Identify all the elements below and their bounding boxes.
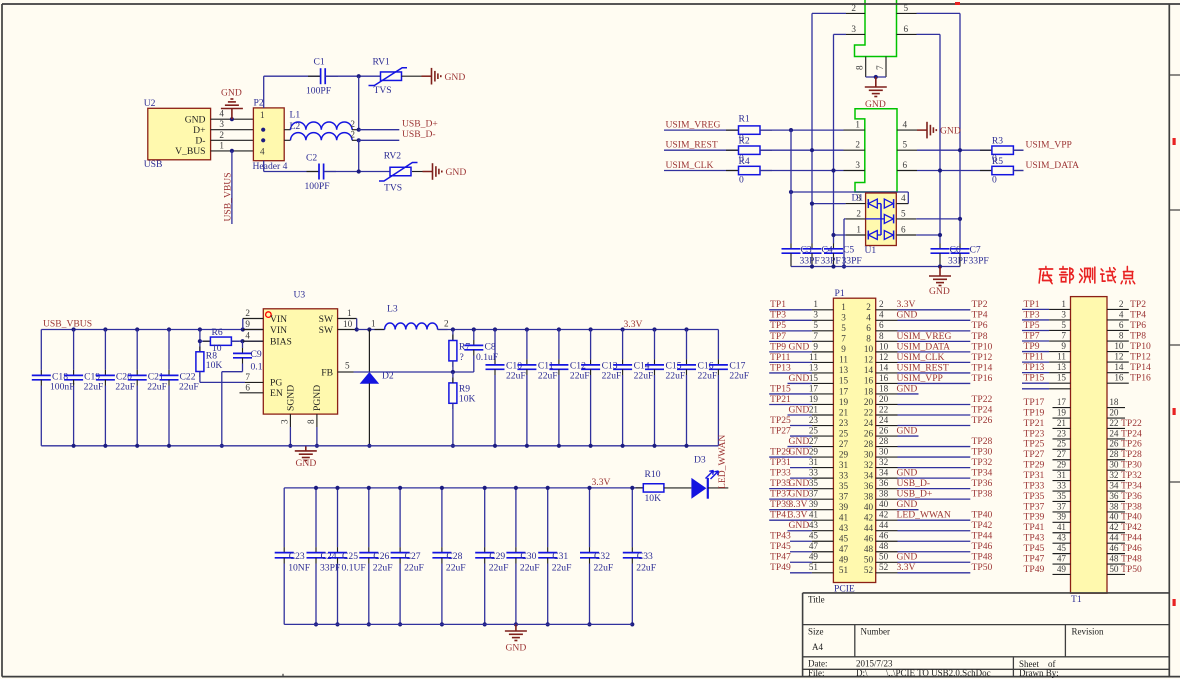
wire L3 to 3.3V rail (438, 329, 448, 331)
P1 pin 19 left row (769, 403, 812, 405)
svg-text:TP48: TP48 (1121, 553, 1142, 564)
svg-text:3.3V: 3.3V (624, 319, 643, 330)
U1 pin 5 (896, 218, 916, 220)
wire U1 pin5 to x960 (916, 218, 960, 220)
svg-text:TP45: TP45 (770, 541, 791, 552)
T1 pin 46 right row (1107, 553, 1125, 555)
svg-text:36: 36 (879, 478, 889, 488)
sheet border right (1168, 4, 1170, 677)
J2 pin 2 (844, 149, 865, 151)
svg-text:16: 16 (879, 373, 889, 383)
capacitor C17 (717, 330, 719, 360)
regulator U3 (263, 309, 337, 414)
T1 pin 35 left row (1053, 500, 1071, 502)
svg-text:27: 27 (839, 439, 849, 449)
P1 pin 23 left row (790, 425, 812, 427)
U3 pin 6 (240, 392, 264, 394)
resistor R6 (200, 340, 211, 342)
junction FB R7 (451, 370, 455, 374)
svg-text:LED_WWAN: LED_WWAN (897, 510, 951, 521)
svg-text:13: 13 (1057, 362, 1067, 372)
svg-text:1: 1 (347, 308, 352, 318)
wire J1 pin5 to USIM_VPP bus (917, 12, 961, 14)
svg-text:8: 8 (866, 334, 871, 344)
T1 pin 8 right row (1107, 340, 1129, 342)
svg-text:TP33: TP33 (770, 468, 791, 479)
svg-text:Revision: Revision (1072, 627, 1105, 637)
svg-text:USIM_VPP: USIM_VPP (897, 373, 943, 384)
wire R5 out (1013, 170, 1024, 172)
svg-text:A4: A4 (812, 642, 823, 652)
svg-text:5: 5 (903, 140, 908, 150)
capacitor C28 (441, 488, 443, 547)
svg-text:31: 31 (839, 460, 849, 470)
wire R8 bottom to PG (199, 372, 201, 383)
T1 pin 34 right row (1107, 490, 1125, 492)
svg-text:TP17: TP17 (1024, 397, 1045, 408)
title block column Number-Revision (1064, 625, 1066, 657)
svg-text:2: 2 (855, 140, 860, 150)
wire vertical USIM_CLK x=833.5 (833, 34, 835, 243)
svg-text:48: 48 (864, 544, 874, 554)
svg-text:TP4: TP4 (1130, 309, 1146, 320)
U3 pin 5 FB (338, 371, 354, 373)
svg-text:29: 29 (1057, 460, 1067, 470)
svg-text:44: 44 (864, 523, 874, 533)
lower ground rail (284, 623, 632, 625)
svg-text:22uF: 22uF (538, 371, 558, 382)
svg-text:22uF: 22uF (698, 371, 718, 382)
T1 pin 36 right row (1107, 500, 1125, 502)
svg-text:USIM_REST: USIM_REST (897, 362, 949, 373)
P1 pin 1 left row (769, 309, 812, 311)
svg-text:TP39: TP39 (1024, 512, 1045, 523)
wire U1 pin2 to ground rail (844, 218, 846, 220)
wire junction down to USB_D+ (358, 76, 360, 130)
svg-text:22uF: 22uF (729, 371, 749, 382)
svg-text:40: 40 (1109, 512, 1119, 522)
svg-text:R5: R5 (992, 156, 1003, 167)
U1 pin 4 (896, 203, 908, 205)
resistor R3 (980, 149, 992, 151)
junction x833.5 pin1 (831, 233, 835, 237)
svg-text:17: 17 (1057, 397, 1067, 407)
U1 pin 6 (896, 234, 916, 236)
svg-text:0.1: 0.1 (251, 361, 263, 372)
wire P2 bottom to C2 (263, 161, 265, 172)
resistor R9 (449, 383, 457, 403)
P1 pin 17 left row (769, 393, 812, 395)
svg-text:4: 4 (901, 193, 906, 203)
svg-text:14: 14 (864, 365, 874, 375)
svg-text:3.3V: 3.3V (592, 477, 611, 488)
T1 pin 10 right row (1107, 351, 1129, 353)
P1 pin 9 left row (769, 351, 812, 353)
svg-text:8: 8 (306, 419, 316, 424)
svg-text:BIAS: BIAS (270, 337, 292, 348)
svg-text:15: 15 (809, 373, 819, 383)
U1 pin 2 (846, 218, 866, 220)
junction pin5 (958, 148, 962, 152)
svg-text:GND: GND (789, 478, 810, 489)
svg-text:100nF: 100nF (50, 382, 75, 393)
U1 internal diodes (880, 204, 882, 235)
svg-text:VIN: VIN (270, 325, 287, 336)
svg-text:3.3V: 3.3V (789, 499, 808, 510)
T1 pin 4 right row (1107, 319, 1129, 321)
T1 pin 6 right row (1107, 329, 1129, 331)
power port GND right of RV2 (432, 163, 434, 180)
border zone tick bottom (282, 674, 284, 677)
svg-text:22uF: 22uF (636, 562, 656, 573)
svg-text:GND: GND (897, 499, 918, 510)
U3 pin 2 (243, 318, 263, 320)
svg-text:TP29: TP29 (1024, 460, 1045, 471)
svg-text:TP46: TP46 (1121, 543, 1142, 554)
P1 pin 39 left row (769, 509, 812, 511)
svg-text:22: 22 (879, 404, 889, 414)
svg-text:C4: C4 (822, 245, 833, 256)
wire J2 pin5 to R3 (917, 149, 992, 151)
svg-text:C1: C1 (314, 57, 325, 68)
svg-text:TP8: TP8 (1130, 330, 1146, 341)
T1 extra stub row (1022, 388, 1049, 390)
svg-text:TP26: TP26 (1121, 439, 1142, 450)
svg-text:TP50: TP50 (972, 562, 993, 573)
svg-text:21: 21 (1057, 418, 1067, 428)
svg-text:27: 27 (809, 436, 819, 446)
P1 pin 51 left row (790, 572, 812, 574)
svg-text:C28: C28 (446, 551, 462, 562)
svg-text:TP34: TP34 (972, 468, 993, 479)
svg-text:48: 48 (1109, 553, 1119, 563)
T1 pin 45 left row (1053, 553, 1071, 555)
svg-text:43: 43 (809, 520, 819, 530)
wire R10 to D3 (664, 487, 692, 489)
svg-text:23: 23 (809, 415, 819, 425)
wire R4 to J2 pin3 (760, 170, 844, 172)
T1 pin 24 right row (1107, 438, 1125, 440)
svg-text:30: 30 (1109, 460, 1119, 470)
svg-text:10: 10 (879, 341, 889, 351)
capacitor C23 (283, 488, 285, 547)
svg-text:TP1: TP1 (770, 299, 786, 310)
svg-text:3: 3 (851, 24, 856, 34)
wire J1 pin6 to USIM_DATA bus (917, 33, 941, 35)
svg-text:TP10: TP10 (1130, 341, 1151, 352)
T1 pin 37 left row (1053, 511, 1071, 513)
svg-text:23: 23 (1057, 428, 1067, 438)
capacitor C5 (833, 244, 835, 249)
title block row line 3 (803, 668, 1170, 670)
svg-text:VIN: VIN (270, 314, 287, 325)
svg-text:TP3: TP3 (1024, 309, 1040, 320)
T1 pin 18 right row (1107, 407, 1125, 409)
capacitor C15 (654, 330, 656, 360)
junction D2 (367, 327, 371, 331)
svg-text:22uF: 22uF (404, 562, 424, 573)
svg-text:T1: T1 (1071, 594, 1082, 605)
svg-text:1: 1 (855, 120, 860, 130)
svg-text:8: 8 (855, 65, 865, 70)
svg-text:USB_VBUS: USB_VBUS (223, 172, 234, 221)
junction VREG (789, 128, 793, 132)
svg-text:TP12: TP12 (972, 352, 993, 363)
svg-text:GND: GND (185, 114, 206, 125)
svg-text:26: 26 (879, 425, 889, 435)
title block column Date-Sheet (1012, 657, 1014, 677)
svg-text:1: 1 (371, 319, 376, 329)
T1 pin 20 right row (1107, 417, 1125, 419)
T1 pin 2 right row (1107, 308, 1129, 310)
svg-text:38: 38 (879, 489, 889, 499)
svg-text:20: 20 (879, 394, 889, 404)
svg-text:TP7: TP7 (770, 331, 786, 342)
J2 pin 6 (897, 170, 917, 172)
P2 pin 3 dot (261, 138, 265, 142)
svg-text:17: 17 (809, 383, 819, 393)
svg-text:TP49: TP49 (770, 562, 791, 573)
T1 pin 47 left row (1053, 563, 1071, 565)
svg-text:9: 9 (245, 319, 250, 329)
sheet border left (1, 4, 3, 677)
wire U1 pin6 to x940 (916, 234, 940, 236)
svg-text:R7: R7 (459, 341, 470, 352)
capacitor C31 (547, 488, 549, 547)
svg-text:7: 7 (245, 372, 250, 382)
capacitor C20 (104, 330, 106, 370)
P1 pin 13 left row (769, 372, 812, 374)
svg-text:10NF: 10NF (288, 562, 310, 573)
wire USB_VBUS down (231, 151, 233, 224)
T1 pin 5 left row (1022, 329, 1049, 331)
3.3V rail lower bank (284, 487, 643, 489)
svg-text:0: 0 (739, 175, 744, 186)
svg-text:33: 33 (1057, 480, 1067, 490)
svg-text:50: 50 (1109, 564, 1119, 574)
svg-text:18: 18 (864, 386, 874, 396)
red caption char ce (1080, 267, 1095, 283)
P1 pin 15 left row (788, 382, 812, 384)
svg-text:SW: SW (319, 314, 334, 325)
junction on GND line (230, 117, 234, 121)
svg-text:47: 47 (809, 541, 819, 551)
svg-text:TP38: TP38 (972, 489, 993, 500)
P1 pin 43 left row (788, 530, 812, 532)
P2 pin 2 dot (261, 128, 265, 132)
svg-text:U1: U1 (865, 245, 877, 256)
svg-text:33PF: 33PF (842, 255, 862, 266)
title block outline (803, 592, 1170, 594)
svg-text:SW: SW (319, 325, 334, 336)
junction C9 rail (220, 444, 224, 448)
svg-text:22uF: 22uF (147, 382, 167, 393)
svg-text:C32: C32 (594, 551, 610, 562)
svg-text:USB_D-: USB_D- (897, 478, 931, 489)
wire C1 to junction (325, 75, 380, 77)
svg-text:D-: D- (195, 135, 205, 146)
svg-text:6: 6 (903, 160, 908, 170)
capacitor C29 (484, 488, 486, 547)
P1 pin 7 left row (769, 340, 812, 342)
capacitor C18 (40, 330, 42, 370)
svg-text:13: 13 (809, 362, 819, 372)
svg-text:GND: GND (789, 404, 810, 415)
svg-text:44: 44 (879, 520, 889, 530)
junction R9 rail (451, 444, 455, 448)
L1 right stubs (352, 129, 359, 131)
svg-text:34: 34 (864, 470, 874, 480)
svg-text:22uF: 22uF (552, 562, 572, 573)
power port GND below rail (939, 267, 941, 277)
capacitor C6 (939, 244, 941, 249)
wire J1 pin3 to USIM_CLK bus (834, 33, 847, 35)
wire USIM_CLK (664, 170, 739, 172)
svg-text:C33: C33 (637, 551, 653, 562)
section ground rail (41, 445, 718, 447)
svg-text:USIM_DATA: USIM_DATA (897, 341, 951, 352)
svg-text:37: 37 (839, 491, 849, 501)
svg-text:10K: 10K (645, 493, 662, 504)
svg-text:6: 6 (901, 225, 906, 235)
J1 pin 3 (846, 33, 865, 35)
svg-text:21: 21 (839, 407, 849, 417)
svg-text:C9: C9 (251, 349, 262, 360)
svg-text:22uF: 22uF (570, 371, 590, 382)
svg-text:10: 10 (1114, 341, 1124, 351)
T1 pin 39 left row (1053, 521, 1071, 523)
svg-text:R10: R10 (645, 469, 661, 480)
svg-text:6: 6 (866, 323, 871, 333)
svg-text:4: 4 (219, 109, 224, 119)
J2 pin 3 (844, 170, 865, 172)
svg-text:10: 10 (343, 319, 353, 329)
wire pin1 corner (356, 319, 358, 330)
svg-text:Size: Size (808, 627, 824, 637)
power port GND below U3 (305, 446, 307, 451)
svg-text:31: 31 (809, 457, 819, 467)
wire USIM_REST (664, 149, 739, 151)
svg-text:22uF: 22uF (666, 371, 686, 382)
power port GND lower bank (515, 624, 517, 631)
svg-text:4: 4 (903, 120, 908, 130)
svg-text:31: 31 (1057, 470, 1067, 480)
sheet border top (2, 3, 1180, 5)
svg-text:44: 44 (1109, 533, 1119, 543)
svg-text:37: 37 (1057, 501, 1067, 511)
border zone red marks (1173, 138, 1176, 145)
T1 pin 23 left row (1053, 438, 1071, 440)
T1 pin 27 left row (1053, 459, 1071, 461)
capacitor C4 (811, 244, 813, 249)
svg-text:GND: GND (897, 425, 918, 436)
junction USB_D- (357, 138, 361, 142)
U2 pin 2 wire (211, 139, 254, 141)
svg-text:50: 50 (879, 552, 889, 562)
svg-text:TP34: TP34 (1121, 480, 1142, 491)
J1 pin 5 (897, 12, 917, 14)
capacitor C8 (473, 330, 475, 341)
capacitor C27 (399, 488, 401, 547)
svg-text:1: 1 (260, 110, 265, 120)
svg-text:TVS: TVS (374, 85, 392, 96)
P1 pin 41 left row (769, 519, 812, 521)
capacitor C7 (959, 244, 961, 249)
U2 pin 1 wire (211, 150, 254, 152)
svg-text:29: 29 (839, 449, 849, 459)
svg-text:1: 1 (841, 302, 846, 312)
capacitor C10 (494, 330, 496, 360)
J2 pin 5 (897, 149, 917, 151)
svg-text:TP11: TP11 (1024, 352, 1045, 363)
junction U1 pin6 (938, 233, 942, 237)
svg-text:USIM_CLK: USIM_CLK (666, 160, 714, 171)
capacitor C22 (168, 330, 170, 370)
svg-text:3: 3 (856, 193, 861, 203)
svg-text:42: 42 (864, 513, 874, 523)
svg-text:GND: GND (897, 310, 918, 321)
svg-text:TP35: TP35 (1024, 491, 1045, 502)
svg-text:R4: R4 (739, 156, 750, 167)
svg-text:Title: Title (808, 595, 825, 605)
svg-text:TP28: TP28 (972, 436, 993, 447)
svg-text:D+: D+ (193, 125, 205, 136)
wire C1 row (264, 75, 321, 77)
svg-text:2: 2 (350, 119, 355, 129)
svg-text:L2: L2 (290, 121, 301, 132)
capacitor C9 (242, 341, 244, 348)
svg-text:10K: 10K (459, 394, 476, 405)
P1 pin 3 left row (769, 319, 812, 321)
svg-text:22: 22 (864, 407, 874, 417)
U2 pin 4 wire (211, 118, 254, 120)
J2 pin 4 (897, 129, 917, 131)
svg-text:24: 24 (879, 415, 889, 425)
P1 pin 35 left row (769, 488, 812, 490)
resistor R7 (452, 330, 454, 341)
svg-text:26: 26 (1109, 439, 1119, 449)
svg-text:R3: R3 (992, 136, 1003, 147)
svg-text:40: 40 (864, 502, 874, 512)
svg-text:GND: GND (221, 88, 242, 99)
T1 pin 29 left row (1053, 469, 1071, 471)
svg-text:TP43: TP43 (770, 531, 791, 542)
svg-text:4: 4 (879, 310, 884, 320)
svg-text:43: 43 (839, 523, 849, 533)
wire USB_D- stub (359, 139, 400, 141)
svg-text:6: 6 (1119, 320, 1124, 330)
svg-text:TP7: TP7 (1024, 330, 1040, 341)
svg-text:22uF: 22uF (84, 382, 104, 393)
svg-text:12: 12 (879, 352, 889, 362)
svg-text:15: 15 (1057, 373, 1067, 383)
svg-text:\..\PCIE TO USB2.0.SchDoc: \..\PCIE TO USB2.0.SchDoc (886, 668, 991, 678)
svg-text:Number: Number (861, 627, 891, 637)
U1 pin 1 (846, 234, 866, 236)
svg-text:5: 5 (841, 323, 846, 333)
svg-text:GND: GND (897, 383, 918, 394)
P1 pin 31 left row (790, 467, 812, 469)
svg-text:20: 20 (864, 397, 874, 407)
svg-text:RV1: RV1 (373, 57, 391, 68)
svg-text:16: 16 (1114, 373, 1124, 383)
svg-text:TP27: TP27 (1024, 449, 1045, 460)
svg-text:25: 25 (809, 425, 819, 435)
svg-text:TP21: TP21 (1024, 418, 1045, 429)
T1 pin 17 left row (1053, 407, 1071, 409)
U3 pin 4 (243, 340, 263, 342)
svg-text:FB: FB (321, 367, 333, 378)
